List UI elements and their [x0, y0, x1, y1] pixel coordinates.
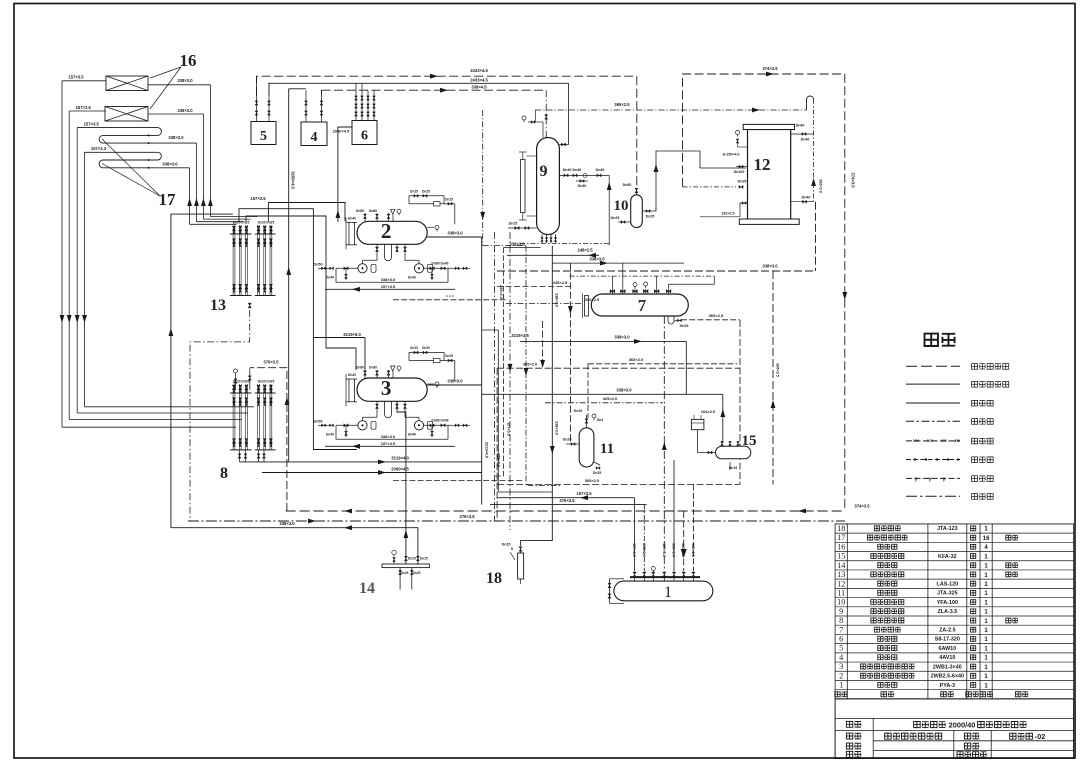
gas line to purger row 2 [482, 393, 723, 395]
liquid feed lines to unit 3 [239, 209, 357, 450]
compressor 4 box [301, 122, 327, 146]
svg-text:LAS-120: LAS-120 [937, 581, 959, 587]
svg-text:7: 7 [638, 296, 647, 315]
svg-text:365×2.0: 365×2.0 [585, 478, 600, 483]
svg-text:6: 6 [361, 129, 368, 144]
svg-text:Dn40: Dn40 [801, 138, 810, 142]
svg-text:3219×4.0: 3219×4.0 [391, 456, 409, 461]
svg-text:338×3.0: 338×3.0 [177, 78, 193, 83]
svg-text:5: 5 [839, 644, 843, 653]
equalizer dashed drop x=773 [772, 271, 774, 485]
ammonia pump unit 3 (vessel, pumps, valves) [357, 378, 427, 401]
svg-text:Dn25: Dn25 [611, 216, 620, 220]
svg-text:374×3.5: 374×3.5 [851, 172, 856, 188]
svg-text:к к к: к к к [446, 293, 454, 298]
svg-text:330×2.5: 330×2.5 [585, 297, 600, 302]
drain dash-dot vertical x=510 [509, 232, 511, 530]
evaporator supply downcomer bundle with labels and arrows [62, 80, 106, 82]
compressor 5 suction/discharge valves [256, 96, 258, 122]
suction trunk arrow [286, 267, 291, 275]
svg-text:Dn80 Dn40: Dn80 Dn40 [431, 418, 448, 422]
svg-text:Dn80 Dn40: Dn80 Dn40 [431, 261, 448, 265]
svg-text:338×3.0: 338×3.0 [447, 379, 463, 384]
svg-text:9: 9 [540, 163, 548, 180]
svg-text:PYA-3: PYA-3 [940, 683, 955, 689]
svg-text:ZLA-3.5: ZLA-3.5 [937, 609, 957, 615]
drain header with hook marks below unit 2 [393, 299, 508, 301]
receiver drain k-line to right riser [681, 319, 740, 321]
drain header with hook marks below unit 3 [393, 480, 522, 482]
svg-text:9: 9 [839, 607, 843, 616]
svg-text:11: 11 [837, 588, 845, 597]
svg-text:365×2.0: 365×2.0 [629, 357, 644, 362]
air separator 18 [519, 547, 522, 552]
svg-text:365×2.0: 365×2.0 [642, 543, 646, 557]
svg-text:1: 1 [839, 681, 843, 690]
svg-text:365×2.0: 365×2.0 [523, 362, 538, 367]
svg-text:Dn25: Dn25 [410, 346, 418, 350]
svg-text:Dn15: Dn15 [593, 471, 601, 475]
svg-text:Dn25: Dn25 [408, 557, 416, 561]
liquid main from station 13 to bottom bus [171, 214, 233, 528]
dashed drops into zone [542, 321, 544, 368]
svg-text:338×3.0: 338×3.0 [555, 293, 559, 307]
svg-text:3219×6.0: 3219×6.0 [343, 332, 361, 337]
receiver 7 top piping [611, 276, 613, 289]
svg-text:2: 2 [381, 219, 392, 243]
svg-text:338×3.0: 338×3.0 [279, 521, 295, 526]
svg-text:365×3.4: 365×3.4 [672, 543, 676, 558]
svg-text:××: ×× [927, 439, 933, 445]
safety main x-marked to condenser (y=110) [535, 109, 806, 111]
svg-text:Dn15: Dn15 [729, 466, 737, 470]
svg-text:2060×4.5: 2060×4.5 [391, 466, 409, 471]
svg-text:3: 3 [381, 376, 392, 400]
liquid line from intercooler to receiver area [521, 246, 553, 546]
svg-text:Dn50: Dn50 [313, 419, 322, 423]
safety feed to condenser port (x-marked) [683, 186, 737, 188]
svg-text:374×3.5: 374×3.5 [762, 66, 778, 71]
svg-text:2: 2 [839, 671, 843, 680]
svg-text:10: 10 [614, 198, 629, 214]
svg-text:2WB2.5-6×40: 2WB2.5-6×40 [931, 674, 964, 680]
svg-text:338×3.0: 338×3.0 [447, 231, 463, 236]
svg-text:5: 5 [260, 129, 267, 144]
gas bus 338x3.0 under receiver [552, 262, 684, 264]
svg-text:4AV10: 4AV10 [939, 655, 955, 661]
svg-text:159×2.0: 159×2.0 [497, 453, 501, 467]
svg-text:G-250×4.0: G-250×4.0 [722, 153, 739, 157]
unit 3 drain to drain barrel header [397, 401, 406, 564]
svg-text:376×3.5: 376×3.5 [263, 360, 279, 365]
svg-text:Dn4: Dn4 [597, 418, 603, 422]
svg-text:y: y [929, 476, 932, 482]
svg-text:3219×4.5: 3219×4.5 [511, 333, 529, 338]
long dashed bus y=511 [286, 510, 845, 512]
marked drain line under intercooler [520, 243, 609, 245]
svg-text:Dn40: Dn40 [578, 184, 587, 188]
svg-text:Dn25: Dn25 [574, 409, 583, 413]
legend block (line type key) [925, 334, 938, 346]
oil line from intercooler bottom (y-marked) [503, 247, 540, 249]
svg-text:Dn80: Dn80 [356, 366, 364, 370]
suction trunk down from compressor header [288, 89, 290, 462]
liquid feed from station 13 to unit 2 [268, 203, 345, 222]
svg-text:Dn40: Dn40 [348, 373, 356, 377]
svg-text:2433×4.5: 2433×4.5 [470, 68, 488, 73]
svg-text:17: 17 [159, 190, 177, 209]
svg-text:13: 13 [210, 297, 226, 314]
svg-text:8: 8 [220, 465, 228, 482]
svg-text:2050×4.5: 2050×4.5 [333, 129, 351, 134]
svg-text:374×3.5: 374×3.5 [854, 504, 870, 509]
svg-text:245×2.0: 245×2.0 [499, 285, 503, 299]
intercooler 9 with level gauge and valves [537, 137, 560, 234]
evaporative condenser 12 with flanges and ports [748, 130, 791, 221]
drain barrel risers with labels [634, 498, 636, 572]
svg-text:y: y [943, 476, 946, 482]
svg-text:Dn40: Dn40 [408, 275, 416, 279]
svg-text:Dn25: Dn25 [410, 189, 418, 193]
svg-text:376×3.5: 376×3.5 [459, 514, 475, 519]
discharge drop to intercooler 9 right nozzle [568, 83, 570, 144]
station 8 lower valves [239, 450, 241, 462]
unit2 outlet to right trunk [427, 236, 482, 238]
svg-text:338×3.0: 338×3.0 [614, 335, 630, 340]
svg-text:14: 14 [837, 561, 845, 570]
svg-text:104×2.0: 104×2.0 [701, 409, 716, 414]
svg-text:10: 10 [837, 598, 845, 607]
svg-text:365×2.0: 365×2.0 [819, 179, 823, 193]
svg-text:Dn80: Dn80 [369, 366, 377, 370]
svg-text:Dn25: Dn25 [445, 354, 453, 358]
svg-text:Dn50: Dn50 [623, 183, 632, 187]
svg-text:3250×4.0: 3250×4.0 [291, 171, 296, 189]
marked gas line into zone [545, 402, 663, 404]
svg-text:Dn25: Dn25 [422, 346, 430, 350]
svg-text:JTA-123: JTA-123 [937, 526, 958, 532]
svg-text:Dn25: Dn25 [413, 571, 421, 575]
svg-text:3219×4.0: 3219×4.0 [485, 442, 489, 458]
svg-text:338×3.0: 338×3.0 [762, 264, 778, 269]
high pressure discharge main (dashed) to oil separator 10 [257, 76, 637, 96]
svg-text:6: 6 [839, 635, 843, 644]
svg-text:7: 7 [839, 625, 843, 634]
svg-text:2433×4.5: 2433×4.5 [470, 77, 488, 82]
svg-text:338×3.0: 338×3.0 [616, 388, 632, 393]
svg-text:Dn25: Dn25 [445, 197, 453, 201]
oil separator to condenser stepped line [652, 151, 746, 211]
drain dash-dot vertical x=494.5 [494, 232, 496, 521]
svg-text:376×3.5: 376×3.5 [559, 498, 575, 503]
svg-text:338×3.0: 338×3.0 [589, 257, 605, 262]
svg-text:345×2.5: 345×2.5 [691, 543, 695, 557]
svg-text:338×3.0: 338×3.0 [381, 434, 396, 439]
svg-text:Dn25: Dn25 [401, 571, 409, 575]
drain barrel 1 with inlet manifold [614, 581, 713, 601]
station 8 riser valves above [235, 375, 237, 390]
svg-text:Dn25: Dn25 [563, 438, 572, 442]
svg-text:157×3.5: 157×3.5 [76, 105, 92, 110]
svg-text:Dn100: Dn100 [734, 170, 745, 174]
svg-text:18: 18 [837, 524, 845, 533]
compressor 6 suction/discharge valves [355, 93, 357, 121]
U-pipe coil bank 17a [77, 128, 196, 144]
svg-text:-02: -02 [1035, 732, 1045, 741]
station 13 drain valve and dash-dot drain line [248, 303, 251, 308]
svg-text:157×3.3: 157×3.3 [91, 146, 107, 151]
svg-text:6AW10: 6AW10 [939, 646, 957, 652]
air cooler 16a (crossed box) [106, 76, 148, 91]
svg-text:157×3.5: 157×3.5 [576, 491, 592, 496]
liquid bus 376x3.5 (solid) [490, 504, 647, 506]
svg-text:157×3.5: 157×3.5 [506, 422, 510, 436]
gas regulating station 8 [230, 392, 252, 394]
svg-text:18: 18 [486, 570, 502, 587]
svg-text:338×4.5: 338×4.5 [471, 85, 487, 90]
svg-text:Dn20 Dn25: Dn20 Dn25 [258, 380, 275, 384]
svg-text:Dn80: Dn80 [356, 209, 364, 213]
equipment list table [835, 523, 1074, 525]
evaporator return risers with arrows [189, 168, 191, 225]
svg-text:157×3.5: 157×3.5 [84, 121, 100, 126]
svg-text:325×2.0: 325×2.0 [603, 396, 618, 401]
svg-text:365×2.5: 365×2.5 [614, 102, 630, 107]
intercooler liquid feed line with left arrow [507, 254, 599, 256]
air cooler 16b (crossed box) [105, 107, 148, 122]
svg-text:338×3.0: 338×3.0 [555, 421, 559, 435]
dashed feed drop into intercooler 9 top [545, 90, 547, 137]
svg-text:KFA-32: KFA-32 [938, 554, 957, 560]
liquid regulating station 13 [230, 233, 252, 235]
second discharge main (dashed) [322, 90, 547, 96]
svg-text:y: y [915, 476, 918, 482]
svg-text:11: 11 [600, 441, 614, 457]
svg-text:Dn25: Dn25 [646, 215, 655, 219]
right trunk vertical x=481.7 [481, 237, 483, 505]
svg-text:245×2.5: 245×2.5 [553, 280, 568, 285]
gas line from unit 2 to compressor trunk [338, 127, 352, 222]
svg-text:15: 15 [837, 552, 845, 561]
svg-text:Dn25: Dn25 [738, 180, 747, 184]
ammonia receiver 7 with nozzle valves [591, 294, 688, 316]
x-marked line above receiver [570, 275, 715, 277]
svg-text:YFA-100: YFA-100 [937, 600, 958, 606]
station 8 outlet headers to compressors suction [240, 461, 482, 463]
title block [835, 699, 1074, 759]
dashed gas riser right of station 8 [250, 368, 287, 511]
svg-text:4: 4 [839, 653, 843, 662]
oil collector 11 [579, 428, 594, 467]
long dash-dot bus y=521 [188, 520, 845, 522]
condenser safety riser x-marked [813, 99, 815, 202]
ammonia pump unit 2 (vessel, pumps, valves) [357, 221, 427, 244]
svg-text:338×3.0: 338×3.0 [168, 135, 184, 140]
svg-text:××: ×× [941, 439, 947, 445]
svg-text:338×3.0: 338×3.0 [509, 241, 525, 246]
svg-text:Dn40: Dn40 [796, 124, 805, 128]
svg-text:Dn20 Dn25: Dn20 Dn25 [258, 221, 275, 225]
svg-text:338×3.0: 338×3.0 [177, 108, 193, 113]
svg-text:S8-17-320: S8-17-320 [935, 637, 960, 643]
svg-text:15: 15 [742, 433, 757, 449]
svg-text:2WB1-3×40: 2WB1-3×40 [933, 664, 962, 670]
svg-text:16: 16 [837, 542, 845, 551]
solid bus 338x3.0 y=527.7 [171, 528, 418, 564]
top right main 374x3.5 (dashed) [683, 74, 845, 511]
svg-text:16: 16 [983, 536, 990, 542]
svg-text:Dn40: Dn40 [326, 275, 334, 279]
svg-text:Dn40: Dn40 [326, 432, 334, 436]
svg-text:157×3.5: 157×3.5 [662, 543, 666, 557]
unit3 outlet to right trunk [427, 384, 482, 386]
liquid bus 157x3.5 (solid) [497, 497, 634, 499]
svg-text:248×2.5: 248×2.5 [577, 248, 593, 253]
safety trunk x=482.7 (x-marked upper) [482, 110, 484, 246]
oil separator 10 [631, 195, 643, 228]
svg-text:Dn25: Dn25 [680, 324, 689, 328]
svg-text:ZA-2.5: ZA-2.5 [939, 628, 955, 634]
svg-text:Dn25: Dn25 [422, 189, 430, 193]
svg-text:Dn40 Dn40: Dn40 Dn40 [563, 168, 582, 172]
svg-text:××: ×× [913, 439, 919, 445]
svg-text:13: 13 [837, 570, 845, 579]
svg-text:1: 1 [664, 584, 672, 601]
safety line x-marked x=526 [526, 246, 560, 486]
dashed bus above receiver [497, 286, 570, 288]
svg-text:××: ×× [954, 439, 960, 445]
svg-text:157×3.5: 157×3.5 [632, 543, 636, 557]
compressor 6 box [352, 121, 377, 145]
swan neck over condenser inlet [807, 96, 814, 110]
U-pipe coil bank 17b [85, 152, 190, 168]
svg-text:157×3.5: 157×3.5 [68, 75, 84, 80]
oil collector feed k-dashed [588, 363, 737, 365]
svg-text:17: 17 [837, 533, 845, 542]
svg-text:Dn15: Dn15 [502, 543, 511, 547]
oil drain valves right of intercooler 9 [559, 174, 609, 176]
svg-text:332×2.5: 332×2.5 [721, 212, 734, 216]
svg-text:157×3.5: 157×3.5 [250, 196, 266, 201]
svg-text:Dn80: Dn80 [369, 209, 377, 213]
svg-text:Dn40: Dn40 [348, 216, 356, 220]
svg-text:Dn25: Dn25 [420, 557, 428, 561]
svg-text:JTA-325: JTA-325 [937, 591, 958, 597]
svg-text:157×3.5: 157×3.5 [381, 441, 396, 446]
svg-text:12: 12 [754, 155, 771, 174]
liquid drop line x=498.3 [482, 329, 499, 331]
svg-text:338×3.0: 338×3.0 [162, 162, 178, 167]
ammonia charging station 14 [382, 564, 429, 568]
svg-text:Dn25: Dn25 [509, 222, 518, 226]
svg-text:365×2.5: 365×2.5 [776, 363, 780, 377]
svg-text:3: 3 [839, 662, 843, 671]
dashed enclosure for units 11/15 [497, 320, 740, 521]
svg-text:4: 4 [311, 130, 318, 145]
svg-text:338×3.0: 338×3.0 [381, 277, 396, 282]
svg-text:8: 8 [839, 616, 843, 625]
svg-text:14: 14 [359, 580, 375, 597]
svg-text:12: 12 [837, 579, 845, 588]
svg-text:2000/40: 2000/40 [949, 720, 976, 729]
oil separator feed drop (dashed) [636, 76, 638, 188]
svg-text:16: 16 [180, 51, 197, 70]
svg-text:157×3.5: 157×3.5 [381, 284, 396, 289]
svg-text:Dn40: Dn40 [596, 168, 605, 172]
gas line to purger row 1 [520, 340, 686, 342]
compressor 5 box [251, 122, 276, 145]
svg-text:Dn40: Dn40 [408, 432, 416, 436]
svg-text:Dn20 Dn25: Dn20 Dn25 [233, 221, 250, 225]
air purger 15 with small tank [691, 419, 704, 429]
svg-text:Dn50: Dn50 [313, 262, 322, 266]
discharge main (solid) to intercooler [269, 83, 569, 96]
svg-text:365×2.5: 365×2.5 [709, 313, 724, 318]
svg-text:Dn40: Dn40 [802, 196, 811, 200]
compressor 4 suction/discharge valves [305, 96, 307, 122]
condenser surround dashed box [815, 202, 817, 271]
